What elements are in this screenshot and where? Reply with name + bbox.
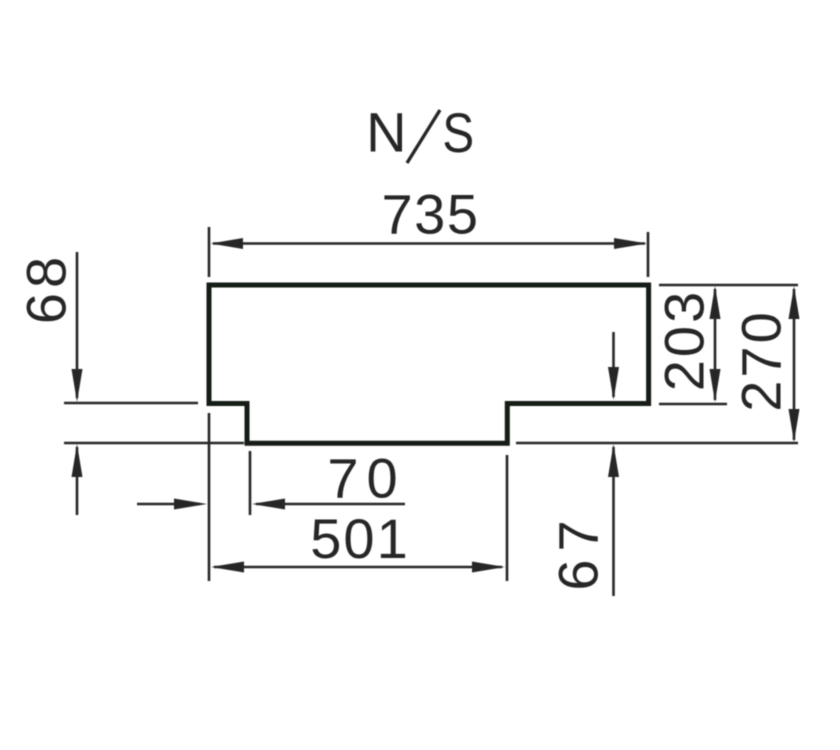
arrowhead down of 68 — [72, 369, 83, 402]
arrowhead right of 70 — [174, 499, 207, 510]
svg-text:68: 68 — [14, 252, 77, 324]
arrowhead up of 203 — [710, 286, 721, 319]
dimension line 735 — [213, 242, 645, 245]
extension line bottom right — [516, 442, 798, 445]
svg-text:S: S — [442, 102, 474, 164]
arrowhead right of 501 — [472, 562, 505, 573]
extension line right of top edge — [659, 284, 798, 287]
svg-text:270: 270 — [729, 309, 792, 411]
svg-text:N: N — [366, 101, 406, 164]
extension line 501 left — [208, 413, 211, 581]
arrowhead up of 270 — [789, 286, 800, 319]
svg-text:67: 67 — [546, 512, 609, 590]
arrowhead left of 70 — [252, 499, 285, 510]
dimension 70 right line — [256, 503, 405, 506]
arrowhead down of 270 — [789, 409, 800, 442]
arrowhead up of 68 — [72, 444, 83, 477]
dimension 67 upper line — [612, 332, 615, 397]
extension line bottom left — [64, 442, 244, 445]
dimension 67 lower line — [612, 447, 615, 596]
svg-text:203: 203 — [652, 289, 715, 391]
extension line right of step-top — [659, 403, 727, 406]
profile outline — [209, 285, 649, 443]
title slash — [407, 110, 440, 163]
svg-text:735: 735 — [382, 182, 480, 245]
svg-text:501: 501 — [310, 507, 409, 570]
arrowhead down of 67 — [608, 367, 619, 400]
extension line above top-left corner — [208, 227, 211, 277]
extension line 501 right — [506, 455, 509, 581]
dimension line 501 — [214, 566, 502, 569]
arrowhead right of 735 — [614, 238, 647, 249]
dimension 68 upper line — [76, 252, 79, 398]
extension line step-top left — [64, 402, 198, 405]
dimension line 203 — [714, 289, 717, 400]
extension line 70 right — [249, 451, 252, 515]
arrowhead left of 735 — [211, 238, 244, 249]
extension line above top-right corner — [647, 232, 650, 277]
svg-text:70: 70 — [327, 446, 405, 509]
arrowhead up of 67 — [608, 444, 619, 477]
dimension 68 lower line — [76, 447, 79, 515]
arrowhead left of 501 — [211, 562, 244, 573]
dimension line 270 — [793, 289, 796, 440]
dimension 70 left outside line — [137, 503, 200, 506]
arrowhead down of 203 — [710, 369, 721, 402]
